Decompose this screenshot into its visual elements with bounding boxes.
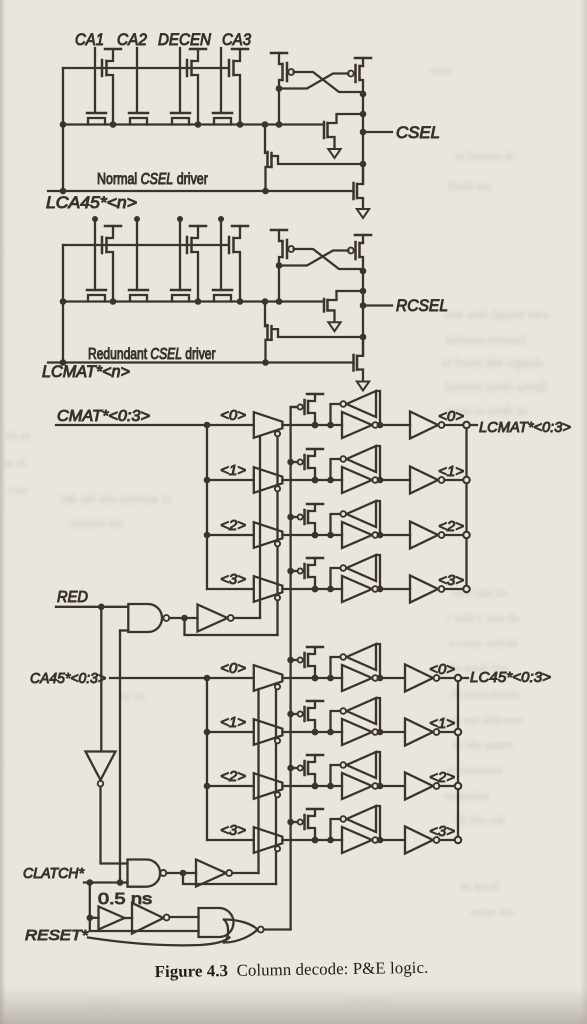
RED branch vertical wire bbox=[100, 607, 102, 752]
CMAT row 2 output node bbox=[377, 532, 384, 539]
normal driver drain branch node bbox=[360, 111, 367, 118]
CMAT row 2 feedback output wire bbox=[331, 514, 341, 535]
gate wire CA1 bbox=[94, 48, 96, 112]
CA45 row 0 feedback input wire bbox=[376, 644, 380, 678]
CMAT row 0 output inverter bbox=[378, 424, 410, 426]
normal driver bus junction node bbox=[110, 121, 117, 128]
CA45 row 2 latch node (keeper) bbox=[312, 783, 319, 790]
delay branch node bbox=[87, 879, 94, 886]
normal driver VCC supply bar for P3 bbox=[232, 48, 248, 51]
normal driver bus tap node bbox=[262, 121, 269, 128]
CMAT row 3 output node bbox=[377, 586, 384, 593]
CA45 row 3 output inverter bbox=[378, 839, 405, 841]
redundant driver bus tap node bbox=[262, 298, 269, 305]
svg-text:LCA45*<n>: LCA45*<n> bbox=[46, 194, 137, 212]
CA45 row 1 keeper PMOS bbox=[303, 707, 306, 721]
redundant driver gate terminal 2 bbox=[134, 216, 140, 222]
delay tap node bbox=[87, 915, 94, 922]
CA45 row 2 keeper drain node bbox=[312, 783, 319, 790]
CA45 distribution vertical wire bbox=[206, 678, 208, 840]
CMAT row 1 keeper PMOS bbox=[303, 455, 306, 469]
normal driver feedback line wire bbox=[48, 190, 354, 192]
redundant driver gate terminal 1 bbox=[92, 216, 98, 222]
inverter U2 bbox=[198, 605, 228, 632]
CMAT row 2 keeper PMOS bbox=[303, 510, 306, 524]
CMAT row 2 feedback input wire bbox=[376, 501, 380, 535]
CMAT row 1 input wire bbox=[207, 479, 254, 481]
delay wire bbox=[125, 917, 133, 919]
CMAT row 0 forward inverter bbox=[342, 412, 372, 438]
CA45 row 2 output bus tap circle bbox=[455, 783, 461, 789]
CMAT row 3 keeper drain node bbox=[312, 586, 319, 593]
CA45 row 3 latch node (keeper) bbox=[312, 837, 319, 844]
CA45 row 1 output bus tap circle bbox=[455, 729, 461, 735]
CA45 row 2 keeper PMOS bbox=[303, 761, 306, 775]
redundant driver gate terminal 3 bbox=[177, 216, 183, 222]
CMAT row 3 keeper PMOS bbox=[303, 564, 306, 578]
LCMAT output wire bbox=[470, 424, 477, 426]
U3 output wire to NAND input bbox=[101, 787, 128, 864]
normal driver series pass transistor N1 gate bbox=[87, 112, 106, 115]
normal driver cross wire gate-left to drain-right bbox=[294, 72, 363, 92]
redundant driver series pass transistor N4 gate bbox=[213, 289, 232, 292]
CMAT row 3 keeper gate tap node bbox=[287, 568, 294, 575]
CMAT row 1 latch node (feedback) bbox=[327, 477, 334, 484]
normal driver feedback wire node bbox=[360, 161, 367, 168]
CA45 row 3 keeper PMOS bbox=[303, 815, 306, 829]
normal driver bus junction node bbox=[237, 121, 244, 128]
CMAT row 1 input wire to latch bbox=[282, 479, 342, 481]
redundant driver series pass transistor N1 gate bbox=[87, 289, 106, 292]
redundant driver series pass transistor N2 channel bbox=[130, 295, 147, 302]
svg-text:CA2: CA2 bbox=[117, 31, 147, 49]
CMAT row 0 feedback input wire bbox=[376, 391, 380, 425]
CA45 row 3 forward inverter bbox=[342, 827, 372, 853]
svg-text:<3>: <3> bbox=[429, 823, 455, 840]
normal driver ground symbol under driver NMOS bbox=[328, 149, 340, 158]
U1 output detour wire to complement vertical bbox=[185, 618, 278, 635]
CMAT row 2 latch node (feedback) bbox=[327, 532, 334, 539]
normal driver pull-down NMOS (gate on feedback line) bbox=[352, 183, 355, 199]
normal driver cross-coupled PMOS right bbox=[362, 58, 364, 66]
CMAT row 3 output inverter bbox=[378, 588, 410, 590]
CA45 output bus wire bbox=[457, 678, 459, 840]
svg-text:LCMAT*<n>: LCMAT*<n> bbox=[42, 363, 130, 381]
CMAT row 0 keeper PMOS bbox=[303, 400, 306, 414]
redundant driver keeper pull-up transistor P2 bbox=[186, 237, 189, 253]
CA45 row 0 keeper VCC bar bbox=[307, 646, 323, 649]
CA45 row 1 keeper VCC bar bbox=[307, 700, 323, 703]
CA45 row 3 keeper gate tap node bbox=[287, 819, 294, 826]
normal driver VCC bar right latch bbox=[355, 57, 371, 60]
CMAT row 3 tri-state buffer bbox=[254, 576, 283, 602]
normal driver left drain node bbox=[276, 85, 283, 92]
svg-text:<0>: <0> bbox=[220, 660, 246, 677]
redundant driver top gate rail wire bbox=[63, 244, 228, 246]
normal CSEL driver block bbox=[48, 49, 392, 218]
CMAT row 3 input wire to latch bbox=[282, 588, 342, 590]
inverter U7 bbox=[132, 903, 164, 934]
CMAT row 1 feedback output wire bbox=[331, 459, 341, 480]
CA45 row 0 output bus tap circle bbox=[455, 675, 461, 681]
CMAT row 2 output wire bbox=[444, 534, 463, 536]
normal driver left drain to bus wire bbox=[278, 89, 280, 125]
CA45 tap node row 2 bbox=[204, 783, 211, 790]
svg-text:RED: RED bbox=[57, 589, 88, 606]
CA45 enable vertical (true) bbox=[257, 689, 259, 873]
U1 output node bbox=[181, 615, 188, 622]
U7 output wire bbox=[170, 916, 199, 918]
redundant driver keeper pull-up transistor P1 bbox=[101, 237, 104, 253]
CMAT row 0 latch node (keeper) bbox=[312, 422, 319, 429]
redundant driver series pass transistor N3 gate bbox=[171, 289, 190, 292]
normal driver series pass transistor N1 channel bbox=[88, 118, 105, 125]
CMAT row 1 output wire bbox=[444, 479, 463, 481]
CMAT row 2 latch node (keeper) bbox=[312, 532, 319, 539]
CMAT row 0 output wire bbox=[444, 424, 463, 426]
svg-text:<0>: <0> bbox=[220, 407, 246, 424]
normal driver left rail wire bbox=[62, 68, 64, 191]
redundant driver pull-down NMOS (gate on feedback line) bbox=[352, 355, 355, 371]
CA45 row 0 feedback output wire bbox=[331, 657, 341, 678]
CA45 row 0 output node bbox=[377, 675, 384, 682]
CMAT row 0 keeper drain node bbox=[312, 422, 319, 429]
CA45 row 3 feedback input wire bbox=[376, 806, 380, 840]
U9 output wire to keeper vertical bbox=[264, 928, 291, 931]
CA45 row 1 feedback inverter bbox=[347, 698, 377, 724]
svg-text:RESET*: RESET* bbox=[25, 927, 89, 944]
output node CSEL bbox=[360, 129, 367, 136]
svg-text:<3>: <3> bbox=[220, 571, 246, 588]
CA45 row 0 input wire to latch bbox=[282, 677, 342, 679]
U4 output node bbox=[180, 870, 187, 877]
CMAT row 2 input wire bbox=[207, 534, 254, 536]
CMAT row 1 keeper drain node bbox=[312, 477, 319, 484]
CMAT row 1 feedback input wire bbox=[376, 446, 380, 480]
CMAT row 1 keeper VCC bar bbox=[307, 448, 323, 451]
redundant driver bus junction node bbox=[195, 298, 202, 305]
redundant driver bus junction node bbox=[110, 298, 117, 305]
redundant driver series pass transistor N2 gate bbox=[129, 289, 148, 292]
CMAT row 3 output bus tap circle bbox=[463, 586, 469, 592]
CA45 row 3 feedback output wire bbox=[331, 819, 341, 840]
CMAT tap node row 2 bbox=[204, 532, 211, 539]
svg-text:<2>: <2> bbox=[438, 518, 464, 535]
normal driver output driver NMOS (gate on bus) bbox=[323, 122, 326, 138]
CA45 row 2 output inverter bbox=[378, 785, 405, 787]
svg-text:CA3: CA3 bbox=[222, 31, 252, 49]
CMAT enable vertical (complement) bbox=[276, 437, 278, 636]
normal driver feedback line node bbox=[262, 188, 269, 195]
CA45 row 2 output wire bbox=[439, 785, 454, 787]
CMAT row 0 feedback output wire bbox=[331, 404, 341, 425]
CA45 row 1 output wire bbox=[439, 731, 454, 733]
CA45 row 0 tri-state buffer bbox=[254, 665, 283, 691]
CA45 row 2 input wire to latch bbox=[282, 785, 342, 787]
CA45 row 1 keeper gate tap node bbox=[287, 711, 294, 718]
normal driver VCC supply bar for P1 bbox=[105, 48, 121, 51]
U4 output detour wire to complement vertical bbox=[183, 873, 276, 884]
svg-text:LCMAT*<0:3>: LCMAT*<0:3> bbox=[479, 419, 571, 436]
CA45 row 0 output wire bbox=[439, 677, 454, 679]
NAND gate U4 (CLATCH) bbox=[128, 860, 161, 887]
redundant CSEL driver block bbox=[48, 226, 392, 381]
U1 output wire bbox=[171, 617, 198, 619]
svg-text:<0>: <0> bbox=[438, 408, 464, 425]
CA45 tap node row 1 bbox=[204, 729, 211, 736]
CMAT row 2 forward inverter bbox=[342, 522, 372, 548]
CMAT row 1 output inverter bbox=[378, 479, 410, 481]
CA45 row 1 input wire bbox=[207, 731, 254, 733]
inverter U3 (down) bbox=[86, 752, 116, 781]
redundant driver series pass transistor N4 channel bbox=[214, 295, 231, 302]
gate wire CA2 bbox=[136, 48, 138, 112]
CMAT row 2 tri-state buffer bbox=[254, 522, 283, 548]
output node RCSEL bbox=[360, 302, 367, 309]
CMAT row 0 latch node (feedback) bbox=[327, 422, 334, 429]
RED tap node bbox=[98, 604, 105, 611]
CMAT distribution vertical wire bbox=[206, 425, 208, 589]
CMAT row 0 keeper VCC bar bbox=[307, 393, 323, 396]
svg-text:<2>: <2> bbox=[220, 517, 246, 534]
AND gate U8 bbox=[199, 908, 234, 937]
CA45 row 0 keeper PMOS bbox=[303, 653, 306, 667]
delay input stub bbox=[90, 917, 99, 919]
normal driver top gate rail wire bbox=[63, 67, 228, 69]
CA45 row 1 latch node (keeper) bbox=[312, 729, 319, 736]
CMAT row 1 forward inverter bbox=[342, 467, 372, 493]
normal driver series pass transistor N4 gate bbox=[213, 112, 232, 115]
svg-text:Normal CSEL driver: Normal CSEL driver bbox=[97, 170, 208, 188]
redundant driver right drain node bbox=[360, 268, 367, 275]
U2 output wire to enable vertical bbox=[234, 616, 260, 619]
CMAT row 0 tri-state buffer bbox=[254, 412, 283, 438]
CA45 tap node row 0 bbox=[204, 675, 211, 682]
redundant driver cross-coupled PMOS left bbox=[278, 230, 280, 241]
redundant driver VCC bar right latch bbox=[355, 234, 371, 237]
CMAT input wire bbox=[56, 424, 254, 426]
CA45 row 2 keeper VCC bar bbox=[307, 754, 323, 757]
normal driver bus-rail corner node bbox=[60, 121, 67, 128]
gate wire DECEN bbox=[179, 48, 181, 112]
CMAT output bus wire bbox=[465, 425, 467, 589]
svg-text:RCSEL: RCSEL bbox=[396, 297, 448, 315]
CA45 row 3 output node bbox=[377, 837, 384, 844]
redundant driver drain branch node bbox=[360, 288, 367, 295]
CA45 row 3 input wire to latch bbox=[282, 839, 342, 841]
redundant driver feedback line wire bbox=[48, 361, 354, 363]
normal driver series pass transistor N3 channel bbox=[172, 118, 189, 125]
normal driver keeper pull-up transistor P3 bbox=[228, 60, 231, 76]
redundant driver cross-coupled PMOS right bbox=[362, 235, 364, 243]
redundant driver VCC supply bar for P3 bbox=[232, 225, 248, 228]
redundant driver VCC supply bar for P2 bbox=[190, 225, 206, 228]
redundant driver gate terminal 4 bbox=[218, 216, 224, 222]
CMAT row 1 latch node (keeper) bbox=[312, 477, 319, 484]
inverter U5 bbox=[196, 860, 226, 887]
normal driver keeper pull-up transistor P2 bbox=[186, 60, 189, 76]
redundant driver VCC supply bar for P1 bbox=[105, 225, 121, 228]
CMAT row 3 keeper VCC bar bbox=[307, 557, 323, 560]
svg-text:<0>: <0> bbox=[429, 661, 455, 678]
CMAT row 3 feedback output wire bbox=[331, 568, 341, 589]
CA45 row 1 forward inverter bbox=[342, 719, 372, 745]
svg-text:LC45*<0:3>: LC45*<0:3> bbox=[470, 669, 551, 686]
CSEL output wire bbox=[363, 131, 392, 133]
CA45 row 0 keeper drain node bbox=[312, 675, 319, 682]
keeper gate vertical wire (CLATCH reset) bbox=[289, 407, 291, 929]
redundant driver source/drain bus wire bbox=[63, 300, 324, 302]
CA45 row 2 input wire bbox=[207, 785, 254, 787]
CA45 row 2 output node bbox=[377, 783, 384, 790]
NOR gate U9 bbox=[224, 920, 258, 943]
CA45 row 3 input wire bbox=[207, 839, 254, 841]
U4 output wire bbox=[166, 872, 196, 874]
redundant driver feedback line node bbox=[262, 359, 269, 366]
svg-text:<1>: <1> bbox=[220, 462, 246, 479]
CA45 row 1 feedback output wire bbox=[331, 711, 341, 732]
CA45 row 1 output inverter bbox=[378, 731, 405, 733]
normal driver source/drain bus wire bbox=[63, 123, 324, 125]
redundant driver output driver NMOS (gate on bus) bbox=[323, 299, 326, 311]
LC45 output wire bbox=[461, 677, 468, 679]
CMAT tap node row 0 bbox=[204, 422, 211, 429]
delay buffer U6 bbox=[99, 907, 125, 930]
normal driver series pass transistor N3 gate bbox=[171, 112, 190, 115]
CA45 row 0 feedback inverter bbox=[347, 644, 377, 670]
redundant driver feedback wire node bbox=[360, 334, 367, 341]
normal driver rail-line junction node bbox=[60, 188, 67, 195]
svg-text:CSEL: CSEL bbox=[396, 124, 440, 142]
CMAT row 2 output inverter bbox=[378, 534, 410, 536]
redundant driver ground symbol under driver NMOS bbox=[328, 322, 340, 331]
redundant driver left drain to bus wire bbox=[278, 266, 280, 302]
redundant driver output vertical wire bbox=[362, 271, 364, 356]
svg-text:<2>: <2> bbox=[220, 768, 246, 785]
svg-text:CLATCH*: CLATCH* bbox=[23, 866, 85, 882]
svg-text:CA45*<0:3>: CA45*<0:3> bbox=[30, 671, 106, 687]
CA45 row 1 latch node (feedback) bbox=[327, 729, 334, 736]
normal driver output vertical wire bbox=[362, 94, 364, 184]
svg-text:<1>: <1> bbox=[438, 463, 464, 480]
CMAT row 3 input wire bbox=[207, 588, 254, 590]
CA45 row 1 feedback input wire bbox=[376, 698, 380, 732]
RCSEL output wire bbox=[363, 304, 392, 306]
CMAT row 0 output bus tap circle bbox=[463, 422, 469, 428]
CLATCH* input wire bbox=[84, 881, 128, 883]
CMAT row 0 output node bbox=[377, 422, 384, 429]
CMAT row 0 feedback inverter bbox=[347, 391, 377, 417]
CMAT row 2 feedback inverter bbox=[347, 501, 377, 527]
CMAT row 3 feedback inverter bbox=[347, 555, 377, 581]
svg-text:<3>: <3> bbox=[438, 572, 464, 589]
svg-text:<1>: <1> bbox=[220, 714, 246, 731]
CA45 row 3 latch node (feedback) bbox=[327, 837, 334, 844]
CA45 row 2 feedback inverter bbox=[347, 752, 377, 778]
svg-text:CA1: CA1 bbox=[75, 31, 104, 49]
CMAT row 1 tri-state buffer bbox=[254, 467, 283, 493]
CMAT row 1 keeper gate tap node bbox=[287, 459, 294, 466]
CA45 row 1 output node bbox=[377, 729, 384, 736]
CLATCH tap node bbox=[117, 879, 124, 886]
normal driver bus junction node bbox=[195, 121, 202, 128]
CA45 row 1 input wire to latch bbox=[282, 731, 342, 733]
CMAT row 3 latch node (keeper) bbox=[312, 586, 319, 593]
redundant driver cross wire drain-left to gate-right bbox=[279, 251, 348, 266]
normal driver series pass transistor N4 channel bbox=[214, 118, 231, 125]
CA45 row 0 latch node (feedback) bbox=[327, 675, 334, 682]
gate wire CA3 bbox=[220, 48, 222, 112]
CA45 row 0 keeper gate tap node bbox=[287, 657, 294, 664]
CA45 row 3 output wire bbox=[439, 839, 454, 841]
CMAT enable vertical (true) bbox=[259, 436, 261, 618]
redundant driver series pass transistor N3 channel bbox=[172, 295, 189, 302]
CMAT row 2 output bus tap circle bbox=[463, 532, 469, 538]
redundant driver left rail wire bbox=[62, 245, 64, 363]
normal driver cross-coupled PMOS left bbox=[278, 53, 280, 64]
U5 output wire to enable vertical bbox=[232, 872, 258, 874]
CA45 row 1 keeper drain node bbox=[312, 729, 319, 736]
svg-text:<1>: <1> bbox=[429, 715, 455, 732]
svg-text:0.5 ns: 0.5 ns bbox=[98, 891, 152, 908]
CA45 row 2 forward inverter bbox=[342, 773, 372, 799]
CMAT row 2 keeper drain node bbox=[312, 532, 319, 539]
CA45 row 2 latch node (feedback) bbox=[327, 783, 334, 790]
CA45 row 3 keeper VCC bar bbox=[307, 808, 323, 811]
normal driver series pass transistor N2 channel bbox=[130, 118, 147, 125]
normal driver series pass transistor N2 gate bbox=[129, 112, 148, 115]
svg-text:<3>: <3> bbox=[220, 822, 246, 839]
svg-text:CMAT*<0:3>: CMAT*<0:3> bbox=[57, 408, 150, 425]
redundant driver bus junction node bbox=[237, 298, 244, 305]
NAND gate U1 (RED enable) bbox=[128, 604, 162, 632]
svg-text:<2>: <2> bbox=[429, 769, 455, 786]
normal driver cross wire drain-left to gate-right bbox=[279, 74, 348, 89]
redundant driver VCC bar left latch bbox=[271, 229, 287, 232]
CA45 row 0 output inverter bbox=[378, 677, 405, 679]
CA45 row 3 keeper drain node bbox=[312, 837, 319, 844]
CMAT row 1 output node bbox=[377, 477, 384, 484]
CMAT row 1 feedback inverter bbox=[347, 446, 377, 472]
CMAT row 3 latch node (feedback) bbox=[327, 586, 334, 593]
CA45 row 1 tri-state buffer bbox=[254, 719, 283, 745]
redundant driver left drain node bbox=[276, 262, 283, 269]
CMAT row 3 forward inverter bbox=[342, 576, 372, 602]
NAND input vertical wire bbox=[119, 631, 121, 883]
CA45 row 3 output bus tap circle bbox=[455, 837, 461, 843]
redundant driver bus-rail corner node bbox=[60, 298, 67, 305]
CMAT row 2 input wire to latch bbox=[282, 534, 342, 536]
CA45 row 2 tri-state buffer bbox=[254, 773, 283, 799]
CMAT row 3 feedback input wire bbox=[376, 555, 380, 589]
CA45 row 2 keeper gate tap node bbox=[287, 765, 294, 772]
normal driver right drain node bbox=[360, 91, 367, 98]
svg-text:Redundant CSEL driver: Redundant CSEL driver bbox=[88, 345, 216, 363]
normal driver down-arrow to redundant block bbox=[357, 209, 369, 218]
normal driver VCC bar left latch bbox=[271, 52, 287, 55]
redundant block down-arrow to latch row 0 bbox=[357, 382, 369, 391]
CMAT row 1 output bus tap circle bbox=[463, 477, 469, 483]
CMAT row 2 keeper gate tap node bbox=[287, 514, 294, 521]
redundant driver rail-line junction node bbox=[60, 359, 67, 366]
normal driver VCC supply bar for P2 bbox=[190, 48, 206, 51]
redundant driver series pass transistor N1 channel bbox=[88, 295, 105, 302]
CA45 row 2 feedback input wire bbox=[376, 752, 380, 786]
RED NAND input-2 wire bbox=[120, 629, 128, 631]
delay input vertical wire bbox=[90, 883, 199, 932]
CA45 enable vertical (complement) bbox=[275, 690, 277, 885]
CA45 row 0 latch node (keeper) bbox=[312, 675, 319, 682]
